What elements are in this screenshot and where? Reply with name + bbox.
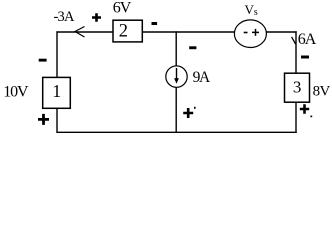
svg-text:8V: 8V bbox=[313, 83, 331, 99]
svg-text:6V: 6V bbox=[113, 0, 132, 17]
arrow inside current source (pointing down) bbox=[176, 68, 178, 79]
plus inside Vs bbox=[252, 29, 259, 36]
resistor box 3 bbox=[285, 73, 310, 102]
plus below box 3 bbox=[300, 104, 309, 113]
svg-text:10V: 10V bbox=[3, 83, 29, 100]
current source 9A (circle) bbox=[166, 66, 187, 87]
wire: top middle horizontal segment bbox=[142, 31, 235, 33]
plus below box 1 bbox=[38, 114, 49, 125]
svg-text:1: 1 bbox=[52, 81, 61, 101]
wire: top-left horizontal segment bbox=[57, 31, 114, 33]
resistor box 2 bbox=[113, 20, 142, 42]
svg-text:Vs: Vs bbox=[245, 2, 258, 18]
minus above box 1 bbox=[39, 59, 47, 62]
wire: right vertical upper segment bbox=[295, 31, 297, 73]
wire: left vertical lower segment bbox=[56, 108, 58, 133]
resistor box 1 bbox=[43, 77, 71, 108]
arrowhead of -3A current (open, pointing left) bbox=[75, 27, 85, 38]
minus sign right of box 2 bbox=[152, 22, 158, 25]
wire: top-right horizontal segment bbox=[266, 31, 296, 33]
minus above current source bbox=[189, 46, 196, 49]
plus below current source bbox=[183, 108, 193, 118]
minus above box 3 bbox=[301, 56, 309, 59]
wire: middle vertical lower segment bbox=[175, 87, 177, 133]
arrowhead of 6A current (pointing down along right wire) bbox=[292, 37, 296, 44]
wire: right vertical lower segment bbox=[295, 102, 297, 133]
wire: left vertical upper segment bbox=[56, 31, 58, 77]
stray tick above-right of plus (middle) bbox=[194, 107, 196, 109]
stray dot below-right of plus (box 3) bbox=[310, 116, 312, 118]
wire: bottom horizontal bbox=[57, 131, 297, 133]
minus inside Vs bbox=[244, 32, 248, 34]
svg-text:6A: 6A bbox=[298, 31, 317, 48]
svg-text:3: 3 bbox=[293, 78, 302, 97]
svg-text:2: 2 bbox=[119, 21, 128, 41]
plus sign left of element 2 bbox=[92, 13, 101, 22]
wire: middle vertical upper segment bbox=[175, 31, 177, 66]
svg-text:-3A: -3A bbox=[54, 9, 75, 25]
svg-text:9A: 9A bbox=[193, 69, 211, 86]
voltage source Vs (ellipse) bbox=[234, 20, 266, 48]
